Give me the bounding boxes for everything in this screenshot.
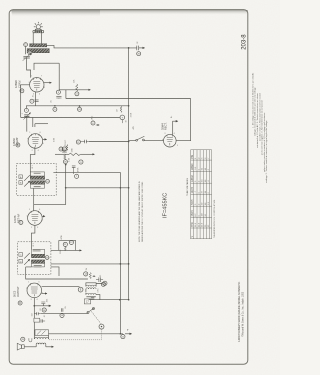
T1 terminal circle <box>46 179 50 183</box>
wire V2 cathode down into T1 <box>30 147 35 176</box>
node <box>33 305 35 307</box>
wire vertical x120 <box>119 172 121 334</box>
output transformer primary <box>35 338 49 339</box>
capacitor C2 with label <box>30 99 39 103</box>
wire secondary arrow <box>46 346 54 348</box>
trimmer capacitor C1A <box>23 53 31 61</box>
wire V4 grid line to osc coil <box>42 285 80 287</box>
value label 150K <box>130 112 132 117</box>
trimmer capacitor C1B <box>23 113 30 126</box>
label 50C5 OUTPUT <box>13 286 20 297</box>
wire corner to B line <box>65 90 67 99</box>
T1 secondary winding <box>30 181 44 184</box>
node <box>128 299 130 301</box>
table horizontals <box>191 160 212 228</box>
capacitor C11 vertical <box>41 302 45 306</box>
wire loop antenna left leg <box>32 33 34 44</box>
tube V3 internals <box>31 211 38 224</box>
capacitor C25 series in antenna bus <box>137 46 139 51</box>
T1 top capacitor <box>34 172 41 174</box>
terminal circle 5 on bus <box>53 107 57 111</box>
voice coil U mark <box>29 338 32 342</box>
wire switch left <box>89 140 136 143</box>
wire V2 plate arrow <box>43 138 47 140</box>
wire plate line with arrow <box>59 89 90 91</box>
tube V5 internals <box>167 135 173 146</box>
resistor R2 vertical <box>74 79 79 96</box>
tube V3 12AT6 envelope <box>28 211 43 226</box>
table frame <box>191 150 212 239</box>
terminal A <box>20 89 24 93</box>
wire AVC rail from V1 grid area <box>21 85 30 118</box>
wire V4 plate arrow <box>42 293 47 295</box>
label 12AT6 <box>13 213 20 223</box>
wire V1 plate arrow <box>44 82 51 84</box>
capacitor C3 plates <box>56 96 61 98</box>
capacitor C12 + circle right <box>60 308 64 317</box>
tube V2 internals <box>32 134 39 147</box>
terminal B <box>16 143 20 147</box>
tiny value labels <box>22 95 173 318</box>
top scan smear <box>11 10 248 15</box>
resistor R3 vertical to electrolytic <box>120 106 122 113</box>
wire y333.8 <box>49 333 123 335</box>
rectifier loop right side <box>176 99 191 141</box>
T2 primary winding <box>31 254 44 258</box>
circle label 20 <box>21 337 25 341</box>
pin numbers V3 <box>27 209 44 229</box>
wire short stub y123.7 <box>35 123 48 125</box>
wire osc to bus <box>86 283 102 300</box>
gang dashed link down/left <box>48 329 102 340</box>
label 35W4 RECT <box>161 122 168 130</box>
wire y171.4 <box>53 171 120 173</box>
wire osc vertical <box>58 63 60 90</box>
wire V4 cathode <box>33 298 35 306</box>
tuning switch lever <box>87 308 95 314</box>
wire trimmer to V1 grid <box>27 58 31 78</box>
wire y299.7 <box>89 299 129 301</box>
volume control R8 <box>84 272 96 279</box>
wire y305.8 with arrow <box>34 305 51 307</box>
label 12BA6 IF AMP <box>12 137 19 146</box>
coupling capacitor C13 <box>34 312 88 315</box>
capacitor C10 <box>91 297 94 299</box>
wire y263.9 <box>51 263 129 265</box>
T2 tuning arrows <box>24 253 30 265</box>
node <box>65 187 67 189</box>
wire V3 plate arrow <box>42 215 45 217</box>
node <box>120 263 122 265</box>
transformer side wires <box>34 330 48 347</box>
node <box>65 164 67 166</box>
trimmer C1B circle <box>24 108 28 112</box>
circle label 12 <box>69 240 73 244</box>
tube V4 internals <box>31 283 38 296</box>
resistor R4 vertical <box>64 154 66 160</box>
wire V3 cathode down into T2 <box>31 225 35 249</box>
T1 internal wires <box>30 172 44 188</box>
wire antenna left down to trimmer <box>25 47 27 55</box>
terminal G <box>24 43 28 47</box>
T2 shield dashed box <box>18 242 51 274</box>
node <box>120 333 122 335</box>
wire V4 cathode chain down <box>33 306 35 318</box>
wire V5 to switch <box>144 140 164 142</box>
wire y187.1 <box>66 187 129 189</box>
pin numbers V4 <box>26 281 43 301</box>
wire bus left end down <box>26 106 29 109</box>
footer credit lines <box>238 281 244 342</box>
antenna coupling coil loops <box>33 30 44 32</box>
pin numbers V5 <box>162 133 178 147</box>
osc coil terminal 16 top right <box>101 282 105 286</box>
wire screen bus y105.8 <box>29 105 129 107</box>
node <box>54 105 56 107</box>
osc coil winding 2 <box>86 293 96 296</box>
wire to output transformer <box>33 322 35 330</box>
loopstick bar L2 lower <box>27 49 49 53</box>
osc coil terminal E <box>78 287 83 292</box>
on-off switch <box>136 136 145 141</box>
wire bus arrow to gang <box>139 47 145 49</box>
node <box>120 187 122 189</box>
osc coil winding 1 <box>86 285 96 289</box>
wire AVC bus y117.5 <box>21 117 120 119</box>
T1 shield dashed box <box>17 163 57 195</box>
wire 12BA6 grid feeds <box>27 118 35 132</box>
circle label 6 with arrow <box>91 121 99 125</box>
wire vertical x128.6 <box>128 48 130 300</box>
T2 top capacitor <box>33 249 41 251</box>
capacitor C14 <box>41 319 45 322</box>
T1 tuning arrows <box>24 175 30 186</box>
output transformer secondary <box>36 343 46 344</box>
wire loop antenna right leg <box>41 33 43 44</box>
T2 internal wires <box>31 249 44 267</box>
line capacitor C16 <box>76 140 89 144</box>
grid resistor R1 circle <box>56 90 60 94</box>
wire coupling cap to band switch <box>41 313 88 314</box>
wire T2 bottom out <box>26 267 88 279</box>
part circle 25 <box>137 52 141 56</box>
T2 terminal circle <box>45 256 49 260</box>
wire right chain vertical <box>65 165 67 205</box>
node <box>119 299 121 301</box>
wire T1 to V3 grid <box>34 204 66 206</box>
wire y250.4 with arrow <box>51 249 82 251</box>
margin notes right <box>251 72 268 183</box>
output transformer core <box>35 330 49 336</box>
tube V5 35W4 envelope <box>164 134 177 147</box>
speaker <box>17 343 24 350</box>
T2 bottom capacitor <box>34 265 42 267</box>
electrolytic C19A <box>120 115 125 123</box>
pin numbers V2 <box>27 132 44 152</box>
resistor R10 small <box>62 145 68 152</box>
resistor R5 with arrow y154 <box>55 153 94 164</box>
wire V1 cathode stub down <box>35 92 37 106</box>
tube V1 12BE6 envelope <box>30 78 44 92</box>
terminal circle 8 <box>59 147 63 151</box>
terminal circle 21 <box>121 335 125 339</box>
T1 bottom capacitor <box>34 187 41 189</box>
capacitor C5 plates <box>62 151 67 153</box>
tube V4 50C5 envelope <box>27 283 42 298</box>
wire speaker to secondary <box>24 346 36 348</box>
gang dashed link diagonal <box>91 311 101 324</box>
T2 slug squares <box>19 253 23 257</box>
wire top bus from antenna to arrow <box>47 45 137 48</box>
terminal circle on bus <box>79 105 81 107</box>
wire osc top loop <box>34 63 59 70</box>
page border frame <box>9 10 248 365</box>
wire arrow right <box>125 333 132 335</box>
wire B+ line y98.5 <box>66 98 191 100</box>
label 12BE6 CONV <box>14 80 21 88</box>
circle label 18 <box>42 308 46 312</box>
resistor R9 box <box>34 318 40 322</box>
resistor R6 vertical <box>72 166 79 179</box>
node junction top bus / vertical <box>128 47 130 49</box>
loopstick bar L1 upper <box>30 44 47 47</box>
tube V1 internals <box>33 77 40 90</box>
loop antenna spiked circle <box>34 22 43 31</box>
node <box>128 263 130 265</box>
table verticals <box>194 150 210 239</box>
gang indicator circle <box>99 324 104 329</box>
terminal H on bar <box>28 51 32 55</box>
osc padder box H <box>84 299 90 304</box>
terminal D <box>18 301 22 305</box>
table cell entries <box>191 155 210 238</box>
coupling capacitor C9 <box>96 277 107 285</box>
T1 slug squares <box>19 175 23 179</box>
T2 secondary winding <box>31 260 44 264</box>
terminal C <box>19 221 23 225</box>
resistor R7 vertical + circle right of V3 <box>59 234 76 250</box>
tube V2 12BA6 envelope <box>28 134 43 149</box>
wire V5 pin up arrow <box>173 121 178 135</box>
T1 primary winding <box>30 176 44 179</box>
pin numbers V1 <box>29 76 45 96</box>
node at bus end <box>128 105 130 107</box>
